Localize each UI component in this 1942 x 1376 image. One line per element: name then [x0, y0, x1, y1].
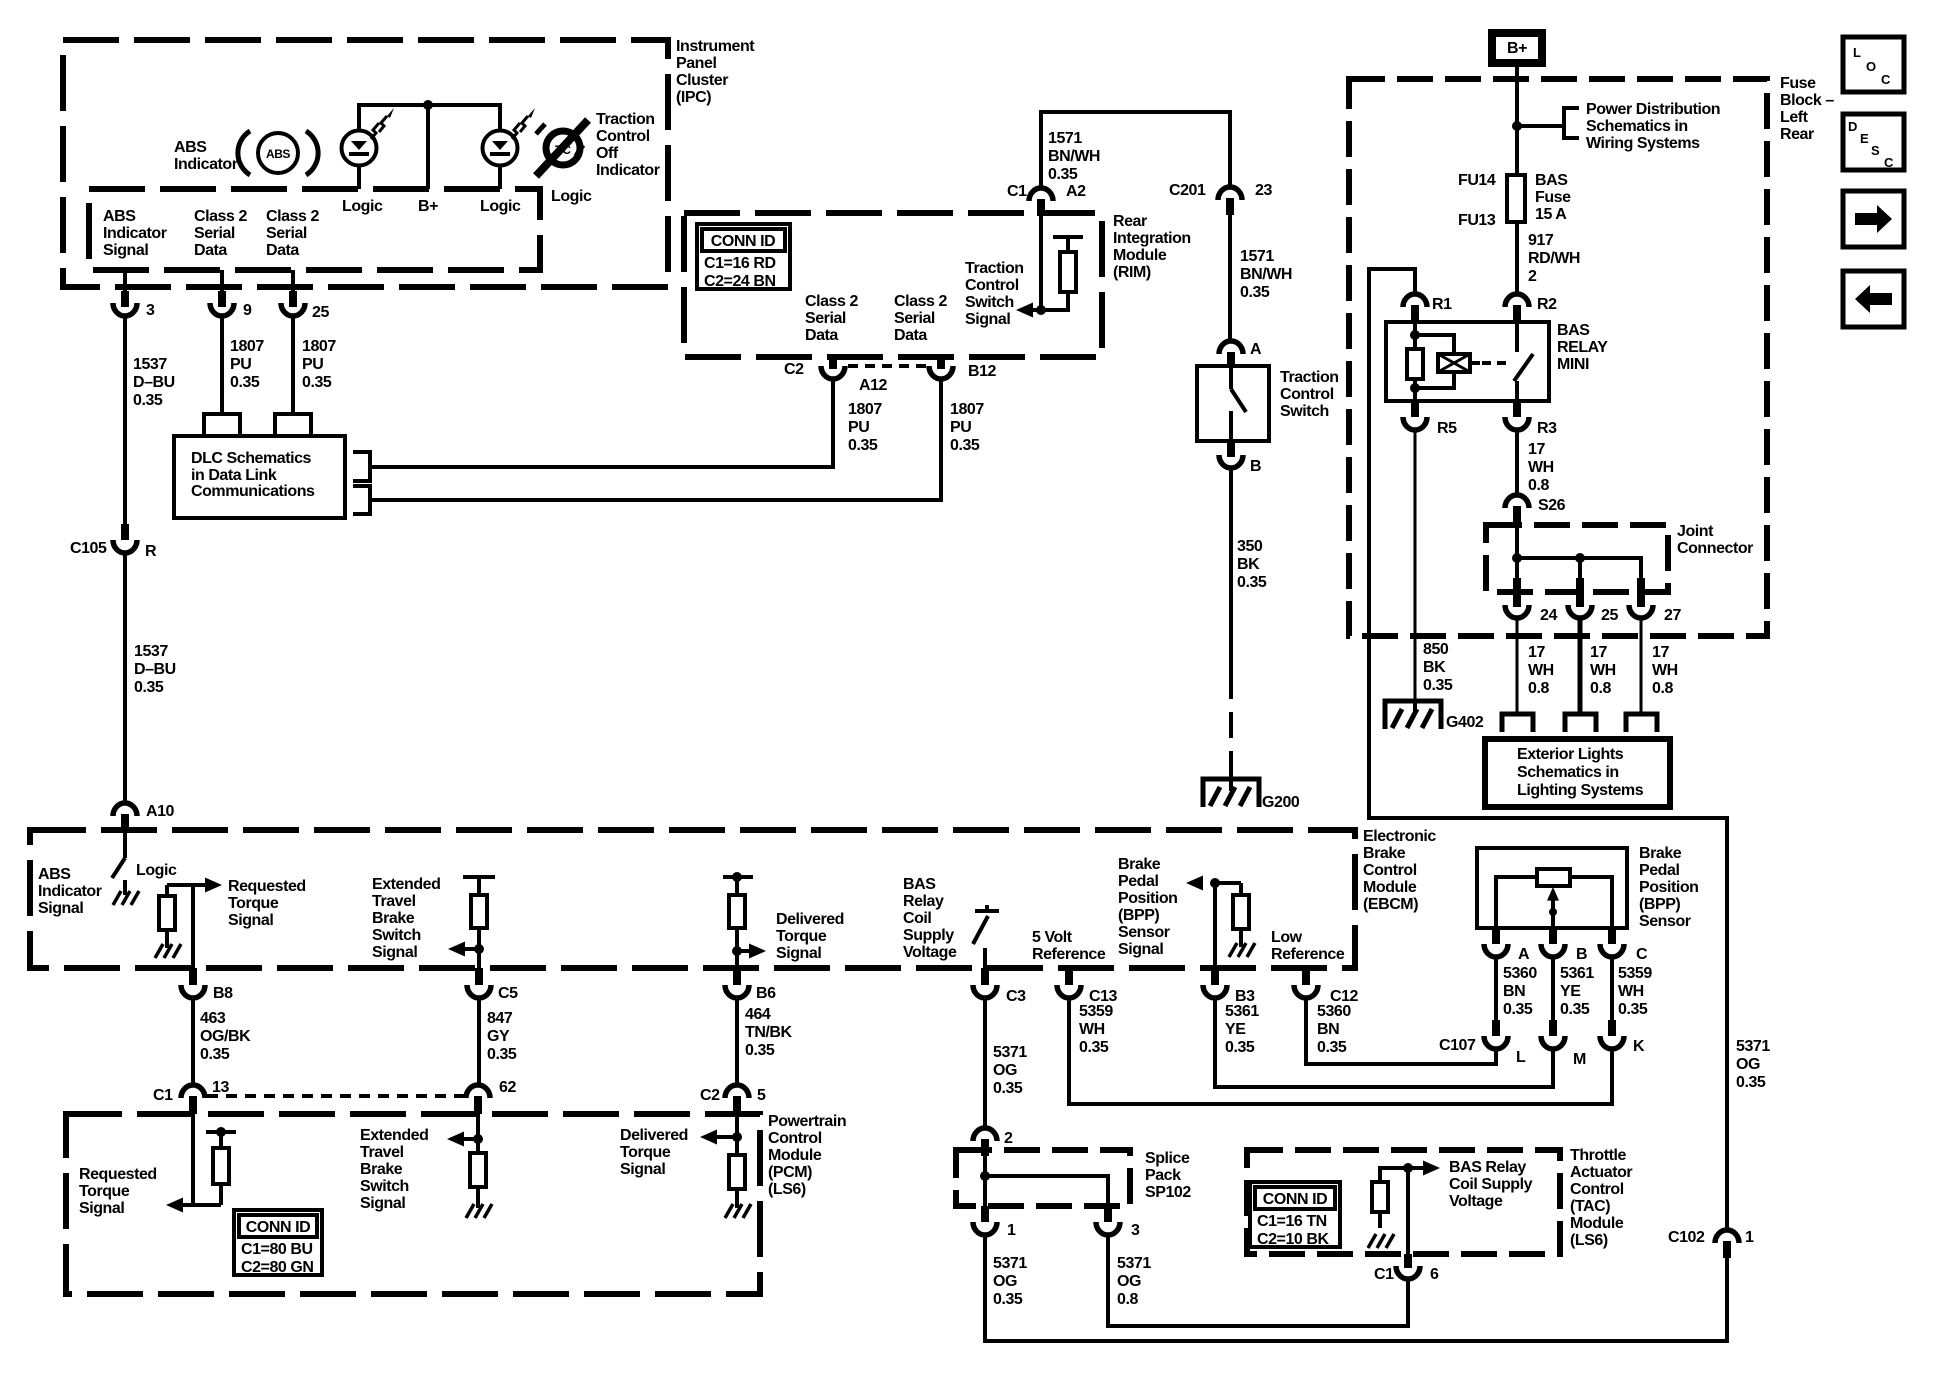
svg-text:Control: Control [596, 128, 650, 145]
wire 17 WH pin 24 [1516, 617, 1519, 714]
BAS relay coil supply switch EBCM [973, 905, 999, 968]
power distribution off-page bracket [1564, 108, 1579, 138]
svg-text:1537: 1537 [133, 356, 167, 373]
svg-text:1: 1 [1745, 1229, 1754, 1246]
svg-text:(PCM): (PCM) [768, 1164, 812, 1181]
Extended travel brake switch pullup EBCM [463, 877, 495, 968]
R5 connector relay [1403, 401, 1457, 437]
C2 pin connector RIM [784, 357, 845, 379]
TAC BAS relay coil supply circuit [1368, 1161, 1440, 1255]
DESC box [1843, 114, 1904, 170]
svg-text:(TAC): (TAC) [1570, 1198, 1610, 1215]
svg-text:Signal: Signal [776, 945, 821, 962]
wire 850 BK from R5 [1414, 430, 1417, 699]
exterior lights bracket 27 [1626, 714, 1657, 732]
svg-text:Rear: Rear [1113, 213, 1147, 230]
PCM requested torque circuit [166, 1114, 236, 1213]
BPP pin B connector [1541, 928, 1587, 963]
B+ battery feed terminal [1488, 29, 1546, 67]
wire BPP A to C107 L [1494, 956, 1498, 1020]
svg-text:Data: Data [194, 242, 227, 259]
node LED bus junction [423, 100, 433, 110]
svg-text:17: 17 [1528, 644, 1545, 661]
svg-text:Rear: Rear [1780, 126, 1814, 143]
wire BPP C to C107 K [1610, 956, 1614, 1020]
R1 connector relay [1403, 294, 1452, 322]
A12 dashed connector line [848, 364, 928, 368]
svg-text:Indicator: Indicator [596, 162, 660, 179]
svg-text:0.35: 0.35 [745, 1042, 775, 1059]
svg-text:ABS: ABS [103, 208, 136, 225]
TC off telltale LED lamp [483, 103, 536, 189]
arrow requested torque signal [193, 883, 206, 887]
svg-text:Off: Off [596, 145, 619, 162]
svg-text:5360: 5360 [1317, 1003, 1351, 1020]
svg-text:0.35: 0.35 [1423, 677, 1453, 694]
exterior lights schematics box [1485, 739, 1670, 807]
svg-text:0.8: 0.8 [1528, 680, 1549, 697]
svg-text:PU: PU [230, 356, 251, 373]
svg-text:0.35: 0.35 [230, 374, 260, 391]
svg-text:0.35: 0.35 [1237, 574, 1267, 591]
svg-text:Instrument: Instrument [676, 38, 755, 55]
svg-text:Fuse: Fuse [1780, 75, 1816, 92]
wire 5360 BN C12 to L [1306, 997, 1496, 1064]
svg-text:0.35: 0.35 [950, 437, 980, 454]
svg-text:C1: C1 [1007, 183, 1027, 200]
wire 463 OG/BK [191, 997, 195, 1085]
svg-text:C201: C201 [1169, 182, 1206, 199]
svg-text:5359: 5359 [1079, 1003, 1113, 1020]
svg-text:24: 24 [1540, 607, 1557, 624]
svg-text:WH: WH [1590, 662, 1616, 679]
joint connector dashed box [1486, 525, 1668, 592]
svg-text:OG/BK: OG/BK [200, 1028, 251, 1045]
svg-text:Class 2: Class 2 [894, 293, 947, 310]
svg-text:1807: 1807 [302, 338, 336, 355]
svg-text:5: 5 [757, 1087, 766, 1104]
C1 A2 connector RIM [1007, 183, 1086, 216]
IPC pin 25 connector [281, 270, 329, 321]
svg-text:3: 3 [1131, 1222, 1140, 1239]
svg-text:A: A [1518, 946, 1530, 963]
svg-text:Pedal: Pedal [1118, 873, 1158, 890]
svg-text:WH: WH [1618, 983, 1644, 1000]
wire joint bus drop 25 [1578, 558, 1582, 580]
svg-text:5360: 5360 [1503, 965, 1537, 982]
svg-text:Class 2: Class 2 [266, 208, 319, 225]
svg-text:Wiring Systems: Wiring Systems [1586, 135, 1700, 152]
svg-text:0.35: 0.35 [1560, 1001, 1590, 1018]
ABS telltale LED lamp [342, 103, 395, 189]
svg-text:847: 847 [487, 1010, 513, 1027]
svg-text:Class 2: Class 2 [194, 208, 247, 225]
svg-text:1571: 1571 [1240, 248, 1274, 265]
node splice SP102 junction [980, 1171, 990, 1181]
svg-text:Module: Module [1113, 247, 1167, 264]
svg-text:(BPP): (BPP) [1118, 907, 1159, 924]
svg-text:E: E [1860, 131, 1869, 146]
svg-text:B+: B+ [1507, 40, 1527, 57]
svg-text:Joint: Joint [1677, 523, 1714, 540]
svg-text:0.35: 0.35 [487, 1046, 517, 1063]
RIM CONN ID box [697, 224, 790, 290]
svg-text:Control: Control [1280, 386, 1334, 403]
splice pin 3 connector [1096, 1206, 1140, 1239]
wire 1537 D-BU from pin 3 [123, 316, 127, 524]
svg-text:CONN ID: CONN ID [246, 1219, 310, 1236]
svg-text:1: 1 [1007, 1222, 1016, 1239]
svg-text:BAS Relay: BAS Relay [1449, 1159, 1526, 1176]
DLC bracket pin 25 [275, 414, 311, 434]
svg-text:OG: OG [1736, 1056, 1760, 1073]
svg-text:(LS6): (LS6) [768, 1181, 806, 1198]
svg-text:A2: A2 [1066, 183, 1086, 200]
svg-text:1537: 1537 [134, 643, 168, 660]
svg-text:25: 25 [1601, 607, 1618, 624]
BPP signal pulldown EBCM [1186, 876, 1255, 969]
svg-text:B12: B12 [968, 363, 997, 380]
svg-text:0.35: 0.35 [1317, 1039, 1347, 1056]
svg-text:BN/WH: BN/WH [1048, 148, 1100, 165]
svg-text:BN: BN [1317, 1021, 1339, 1038]
svg-text:Pack: Pack [1145, 1167, 1181, 1184]
svg-text:Left: Left [1780, 109, 1809, 126]
svg-text:62: 62 [499, 1079, 516, 1096]
svg-text:(IPC): (IPC) [676, 89, 711, 106]
svg-text:Position: Position [1118, 890, 1178, 907]
svg-text:C: C [1884, 155, 1894, 170]
node requested torque junction [167, 883, 193, 887]
wire to power distribution bracket [1517, 124, 1562, 128]
svg-text:0.35: 0.35 [302, 374, 332, 391]
DLC bracket pin 9 [204, 414, 240, 434]
svg-text:C1=80 BU: C1=80 BU [241, 1241, 313, 1258]
svg-text:C: C [1881, 72, 1891, 87]
svg-text:1807: 1807 [950, 401, 984, 418]
svg-text:Module: Module [768, 1147, 822, 1164]
wire splice pack branch to 3 [985, 1176, 1108, 1206]
svg-text:Travel: Travel [360, 1144, 404, 1161]
svg-text:Signal: Signal [620, 1161, 665, 1178]
svg-text:L: L [1516, 1049, 1526, 1066]
svg-text:17: 17 [1528, 441, 1545, 458]
DLC right bracket A [353, 452, 370, 481]
svg-text:Brake: Brake [372, 910, 415, 927]
svg-text:RD/WH: RD/WH [1528, 250, 1580, 267]
svg-text:Voltage: Voltage [903, 944, 957, 961]
svg-text:C: C [1636, 946, 1648, 963]
svg-text:350: 350 [1237, 538, 1263, 555]
arrow extended travel brake switch signal [465, 947, 479, 951]
PCM CONN ID box [234, 1210, 322, 1276]
R2 connector relay [1505, 294, 1557, 322]
svg-text:Travel: Travel [372, 893, 416, 910]
svg-text:A12: A12 [859, 377, 888, 394]
traction switch pin A connector [1219, 341, 1262, 368]
wire R1 coil feed from C102 riser [1369, 269, 1727, 1230]
wire splice pack leg 2 to 1 [983, 1156, 987, 1206]
svg-text:Brake: Brake [1363, 845, 1406, 862]
TAC CONN ID box [1250, 1182, 1340, 1248]
svg-text:0.8: 0.8 [1117, 1291, 1138, 1308]
svg-text:463: 463 [200, 1010, 226, 1027]
node extended travel junction [474, 944, 484, 954]
BPP pin A connector [1484, 928, 1530, 963]
svg-text:C1=16 RD: C1=16 RD [704, 255, 776, 272]
svg-text:in Data Link: in Data Link [191, 467, 277, 484]
svg-text:Logic: Logic [551, 188, 592, 205]
svg-text:0.35: 0.35 [993, 1080, 1023, 1097]
svg-text:Panel: Panel [676, 55, 716, 72]
svg-text:Coil Supply: Coil Supply [1449, 1176, 1533, 1193]
wire 847 GY [477, 997, 481, 1085]
joint connector pin 27 [1629, 578, 1681, 624]
C107 pin L connector [1484, 1020, 1526, 1066]
svg-text:Integration: Integration [1113, 230, 1191, 247]
svg-text:R: R [145, 543, 157, 560]
svg-text:Extended: Extended [360, 1127, 428, 1144]
PCM powertrain control module dashed box [66, 1114, 760, 1294]
svg-text:Brake: Brake [1639, 845, 1682, 862]
svg-text:Powertrain: Powertrain [768, 1113, 846, 1130]
svg-text:Power Distribution: Power Distribution [1586, 101, 1720, 118]
relay switch blade [1515, 322, 1519, 352]
wire S26 into joint connector [1515, 523, 1519, 580]
svg-text:PU: PU [848, 419, 869, 436]
svg-text:C2=10 BK: C2=10 BK [1257, 1231, 1329, 1248]
DLC right bracket B [353, 486, 370, 514]
S26 splice connector [1505, 495, 1566, 523]
svg-text:C5: C5 [498, 985, 518, 1002]
TAC C1 6 connector [1374, 1254, 1439, 1283]
svg-text:Torque: Torque [776, 928, 827, 945]
svg-text:D–BU: D–BU [134, 661, 176, 678]
svg-text:Switch: Switch [1280, 403, 1329, 420]
svg-text:Signal: Signal [103, 242, 148, 259]
svg-text:A10: A10 [146, 803, 175, 820]
DLC schematics reference box [174, 436, 345, 518]
Delivered torque pullup EBCM [723, 872, 753, 968]
svg-text:ABS: ABS [174, 139, 207, 156]
C2 5 connector PCM [700, 1085, 766, 1114]
svg-text:K: K [1633, 1038, 1645, 1055]
svg-text:BN: BN [1503, 983, 1525, 1000]
svg-text:(LS6): (LS6) [1570, 1232, 1608, 1249]
C5 connector EBCM [467, 968, 518, 1002]
svg-text:DLC Schematics: DLC Schematics [191, 450, 312, 467]
svg-text:Reference: Reference [1271, 946, 1345, 963]
RIM rear integration module dashed box [684, 213, 1102, 357]
svg-text:BAS: BAS [903, 876, 936, 893]
wire class 2 serial data to B12 [370, 377, 941, 500]
svg-text:ABS: ABS [38, 866, 71, 883]
wire 5361 YE B3 to M [1215, 997, 1553, 1087]
svg-text:OG: OG [993, 1273, 1017, 1290]
wire 464 TN/BK [735, 997, 739, 1085]
svg-text:Fuse: Fuse [1535, 189, 1571, 206]
C107 pin M connector [1541, 1020, 1586, 1068]
C105 inline connector [70, 524, 157, 560]
svg-text:0.35: 0.35 [200, 1046, 230, 1063]
svg-text:0.35: 0.35 [1048, 166, 1078, 183]
joint connector pin 24 [1505, 578, 1557, 624]
svg-text:0.35: 0.35 [1240, 284, 1270, 301]
svg-text:Serial: Serial [805, 310, 846, 327]
svg-text:0.35: 0.35 [134, 679, 164, 696]
joint connector pin 25 [1568, 578, 1618, 624]
svg-text:9: 9 [243, 302, 252, 319]
back arrow box [1843, 271, 1904, 327]
svg-text:C3: C3 [1006, 988, 1026, 1005]
svg-text:Control: Control [768, 1130, 822, 1147]
svg-text:5361: 5361 [1560, 965, 1594, 982]
wire 1571 BN/WH to traction switch [1228, 213, 1232, 341]
svg-text:WH: WH [1528, 459, 1554, 476]
svg-text:0.35: 0.35 [848, 437, 878, 454]
svg-text:3: 3 [146, 302, 155, 319]
svg-text:B8: B8 [213, 985, 233, 1002]
svg-text:R3: R3 [1537, 420, 1557, 437]
svg-text:Throttle: Throttle [1570, 1147, 1626, 1164]
svg-text:Data: Data [805, 327, 838, 344]
svg-text:C102: C102 [1668, 1229, 1705, 1246]
ground G200 [1203, 777, 1300, 811]
svg-text:5 Volt: 5 Volt [1032, 929, 1073, 946]
svg-text:C1: C1 [1374, 1266, 1394, 1283]
svg-text:0.35: 0.35 [1618, 1001, 1648, 1018]
wire 17 WH pin 25 [1578, 617, 1583, 714]
svg-text:Signal: Signal [1118, 941, 1163, 958]
EBCM logic switch to ground [112, 831, 139, 905]
svg-text:R5: R5 [1437, 420, 1457, 437]
svg-text:5371: 5371 [993, 1255, 1027, 1272]
svg-text:YE: YE [1225, 1021, 1246, 1038]
wire 5371 OG 0.35 splice 1 to C102 [985, 1234, 1727, 1341]
svg-text:B6: B6 [756, 985, 776, 1002]
svg-text:464: 464 [745, 1006, 771, 1023]
svg-text:1571: 1571 [1048, 130, 1082, 147]
svg-text:(EBCM): (EBCM) [1363, 896, 1418, 913]
svg-text:5371: 5371 [1117, 1255, 1151, 1272]
svg-text:0.35: 0.35 [993, 1291, 1023, 1308]
svg-text:WH: WH [1528, 662, 1554, 679]
IPC pin 3 connector [113, 270, 155, 319]
svg-text:RELAY: RELAY [1557, 339, 1608, 356]
svg-text:G402: G402 [1446, 714, 1484, 731]
wire LED bus B+ [359, 103, 500, 107]
svg-text:Module: Module [1363, 879, 1417, 896]
B8 connector EBCM [181, 968, 233, 1002]
PCM delivered torque circuit [700, 1114, 751, 1218]
svg-text:Signal: Signal [38, 900, 83, 917]
svg-text:Extended: Extended [372, 876, 440, 893]
svg-text:MINI: MINI [1557, 356, 1589, 373]
wire 17 WH pin 27 [1640, 617, 1643, 714]
svg-text:0.8: 0.8 [1528, 477, 1549, 494]
svg-text:WH: WH [1652, 662, 1678, 679]
svg-text:Traction: Traction [596, 111, 655, 128]
svg-text:2: 2 [1528, 268, 1537, 285]
svg-text:SP102: SP102 [1145, 1184, 1191, 1201]
svg-text:Traction: Traction [1280, 369, 1339, 386]
svg-text:2: 2 [1004, 1130, 1013, 1147]
node power distribution junction [1512, 121, 1522, 131]
svg-text:Connector: Connector [1677, 540, 1753, 557]
svg-text:Module: Module [1570, 1215, 1624, 1232]
svg-text:Brake: Brake [1118, 856, 1161, 873]
svg-text:Logic: Logic [342, 198, 383, 215]
svg-text:Schematics in: Schematics in [1586, 118, 1688, 135]
wire 1807 PU from pin 25 [291, 316, 295, 412]
svg-text:WH: WH [1079, 1021, 1105, 1038]
wire 1807 PU from pin 9 [220, 316, 224, 412]
svg-text:5361: 5361 [1225, 1003, 1259, 1020]
svg-text:(BPP): (BPP) [1639, 896, 1680, 913]
LOC box [1843, 37, 1904, 92]
traction switch pin B connector [1219, 441, 1261, 475]
relay internal dashed link [1482, 361, 1508, 365]
svg-text:FU14: FU14 [1458, 172, 1496, 189]
BPP pin C connector [1600, 928, 1648, 963]
wire 350 BK [1229, 467, 1233, 673]
svg-text:850: 850 [1423, 641, 1449, 658]
B6 connector EBCM [725, 968, 776, 1002]
svg-text:Position: Position [1639, 879, 1699, 896]
svg-text:Lighting Systems: Lighting Systems [1517, 782, 1644, 799]
svg-text:Pedal: Pedal [1639, 862, 1679, 879]
B12 pin connector RIM [929, 357, 997, 380]
svg-text:Signal: Signal [372, 944, 417, 961]
wire R3 to S26 [1515, 430, 1519, 495]
EBCM electronic brake control module dashed box [30, 830, 1355, 968]
svg-text:ABS: ABS [266, 147, 290, 161]
svg-text:Serial: Serial [894, 310, 935, 327]
svg-text:Exterior Lights: Exterior Lights [1517, 746, 1624, 763]
svg-text:S: S [1871, 143, 1880, 158]
svg-text:M: M [1573, 1051, 1586, 1068]
svg-text:0.35: 0.35 [1736, 1074, 1766, 1091]
svg-text:C2=24 BN: C2=24 BN [704, 273, 776, 290]
svg-text:Traction: Traction [965, 260, 1024, 277]
svg-text:Electronic: Electronic [1363, 828, 1436, 845]
svg-text:D–BU: D–BU [133, 374, 175, 391]
svg-text:Signal: Signal [228, 912, 273, 929]
C12 connector EBCM [1294, 968, 1359, 1005]
IPC internal connection dashed box [89, 189, 540, 270]
splice pack 2 connector [973, 1128, 1013, 1156]
wire 917 RD/WH [1515, 222, 1519, 294]
svg-text:Sensor: Sensor [1639, 913, 1691, 930]
svg-text:Data: Data [266, 242, 299, 259]
wire class 2 serial data to C2 [370, 377, 833, 467]
svg-text:Delivered: Delivered [776, 911, 844, 928]
svg-text:BAS: BAS [1535, 172, 1568, 189]
svg-text:O: O [1866, 59, 1876, 74]
svg-text:27: 27 [1664, 607, 1681, 624]
svg-text:YE: YE [1560, 983, 1581, 1000]
relay coil [1407, 322, 1454, 401]
svg-text:CONN ID: CONN ID [711, 233, 775, 250]
svg-text:Data: Data [894, 327, 927, 344]
svg-text:Serial: Serial [266, 225, 307, 242]
svg-text:Sensor: Sensor [1118, 924, 1170, 941]
svg-text:S26: S26 [1538, 497, 1566, 514]
svg-text:23: 23 [1255, 182, 1272, 199]
svg-text:FU13: FU13 [1458, 212, 1496, 229]
svg-text:Switch: Switch [372, 927, 421, 944]
forward arrow box [1843, 191, 1904, 247]
